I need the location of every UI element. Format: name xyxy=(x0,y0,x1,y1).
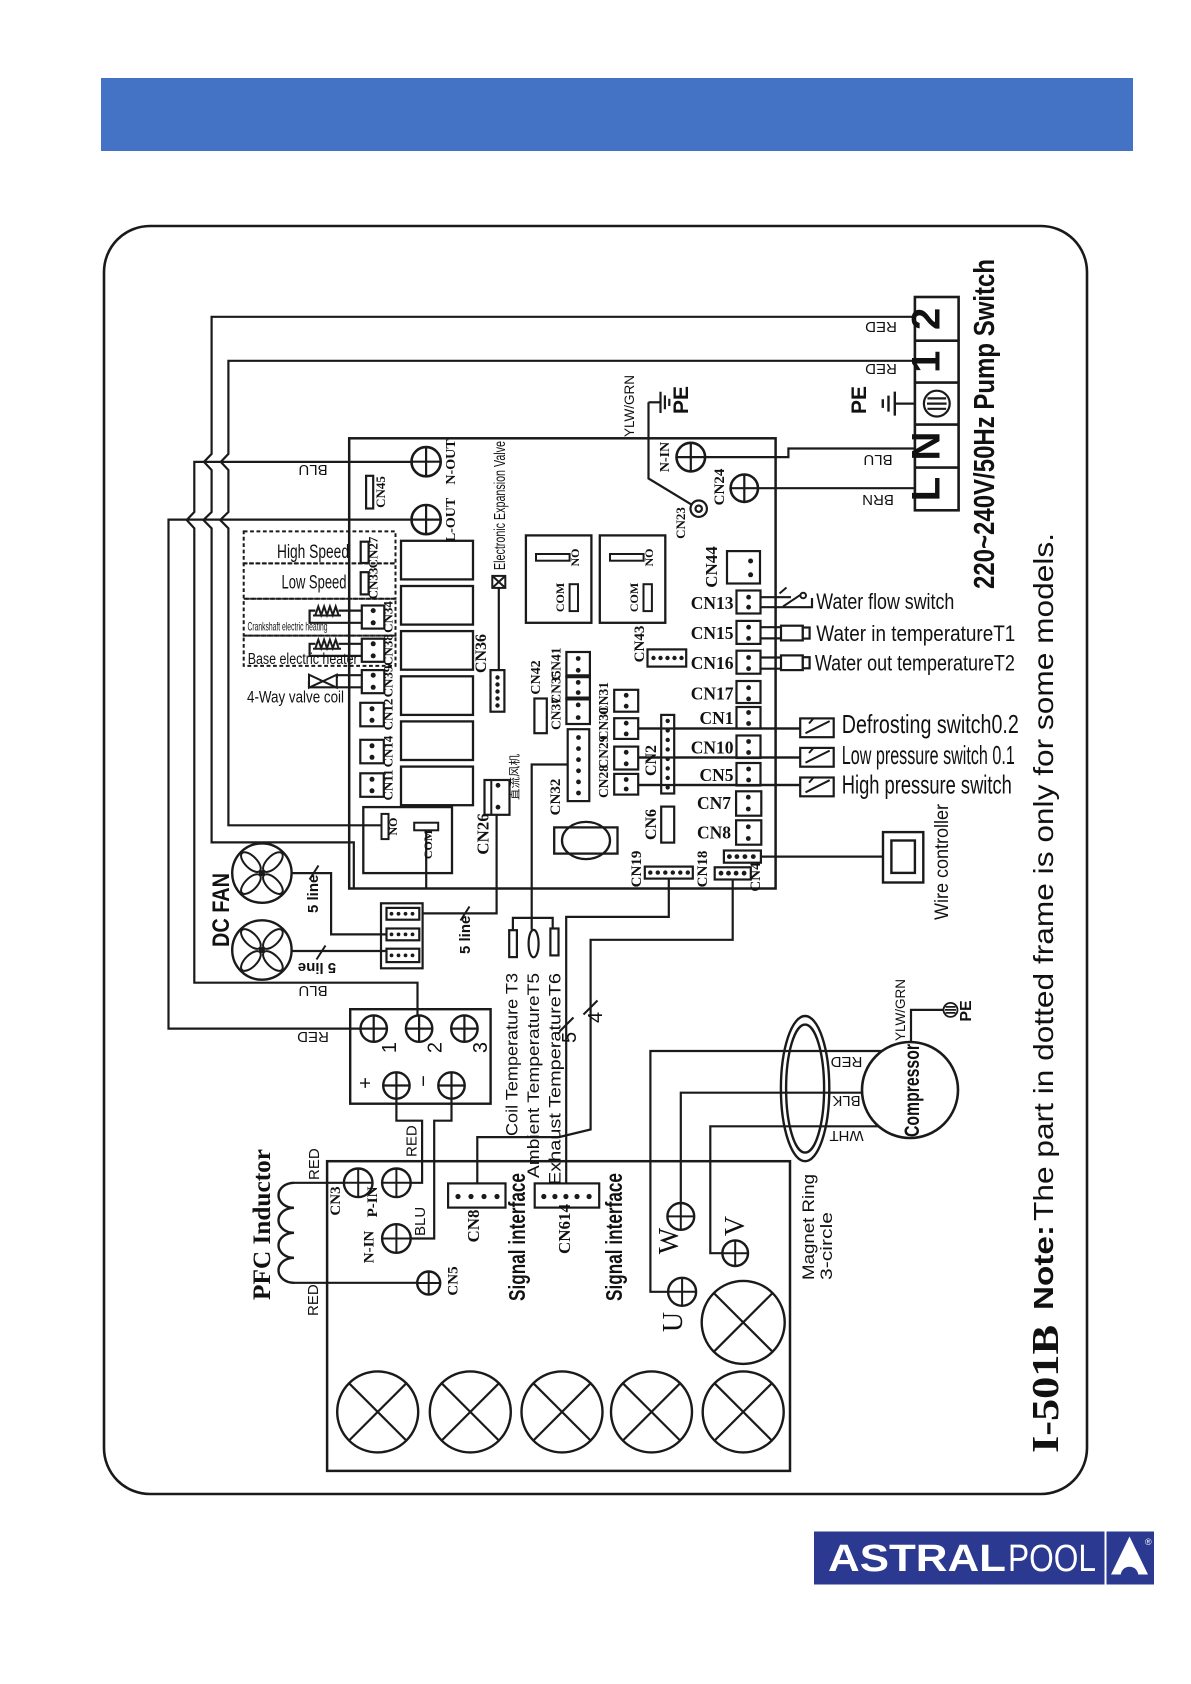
fan connector c xyxy=(387,949,420,962)
connector CN13 xyxy=(737,591,761,614)
wire minus terminal to N-IN xyxy=(411,1099,452,1239)
connector CN34 xyxy=(362,606,385,629)
pins CN35 xyxy=(576,680,581,685)
connector CN30 xyxy=(614,718,638,739)
connector CN16 xyxy=(737,651,761,674)
pins CN43 xyxy=(651,656,655,660)
pins fan connector a xyxy=(390,912,394,916)
wire count slash 5 xyxy=(560,1018,574,1032)
svg-text:BLU: BLU xyxy=(298,461,327,478)
svg-text:CN37: CN37 xyxy=(549,697,564,730)
svg-text:−: − xyxy=(413,1075,435,1087)
svg-text:POOL: POOL xyxy=(1008,1538,1096,1580)
pins CN4 xyxy=(719,871,724,876)
defrosting switch box xyxy=(800,718,834,737)
svg-text:CN11: CN11 xyxy=(381,769,396,800)
wire fan1 to middle connector xyxy=(292,873,387,934)
connector CN19 xyxy=(645,867,693,879)
svg-text:Ambient TemperatureT5: Ambient TemperatureT5 xyxy=(524,973,543,1178)
svg-text:Low pressure switch 0.1: Low pressure switch 0.1 xyxy=(842,740,1015,770)
svg-text:P-IN: P-IN xyxy=(365,1186,381,1217)
svg-text:BLU: BLU xyxy=(298,982,327,999)
dashed frame Low Speed xyxy=(244,563,396,598)
wire CN19 to CN614 signal connector xyxy=(566,879,669,1184)
relay K5 xyxy=(401,721,473,760)
connector CN44 xyxy=(727,551,760,583)
svg-text:CN27: CN27 xyxy=(366,536,381,568)
pins CN2 xyxy=(666,719,670,723)
connector CN7 xyxy=(736,791,761,815)
PE earth symbol at compressor xyxy=(944,1003,958,1017)
svg-text:+: + xyxy=(355,1077,377,1089)
connector CN12 xyxy=(360,703,384,727)
sensor T3 body xyxy=(509,930,517,957)
svg-text:The part in dotted frame is on: The part in dotted frame is only for som… xyxy=(1028,533,1059,1221)
pins CN10 xyxy=(746,739,751,744)
connector CN35 xyxy=(566,676,590,698)
svg-text:CN13: CN13 xyxy=(691,593,734,613)
wire relay COM to board bottom xyxy=(425,830,427,888)
svg-text:Water flow switch: Water flow switch xyxy=(816,589,954,614)
screw W xyxy=(667,1203,694,1230)
fan terminal block 1 2 3 plus minus xyxy=(350,1009,490,1103)
relay K1 xyxy=(401,541,473,580)
wire defrost overlay xyxy=(638,727,800,729)
logo triangle emblem xyxy=(1111,1537,1148,1575)
pins CN14 xyxy=(370,743,375,748)
svg-text:CN614: CN614 xyxy=(555,1203,574,1254)
pins CN16 xyxy=(746,655,751,660)
svg-text:N-IN: N-IN xyxy=(362,1231,378,1264)
4-way valve bowtie xyxy=(309,675,337,688)
magnet ring xyxy=(781,1016,829,1161)
connector CN614 signal xyxy=(535,1183,600,1207)
pins CN32 xyxy=(576,735,581,740)
connector CN28 xyxy=(614,774,638,795)
connector CN41 xyxy=(566,652,590,676)
svg-text:1: 1 xyxy=(379,1042,401,1053)
svg-text:Wire controller: Wire controller xyxy=(932,803,953,920)
screw P-IN xyxy=(382,1169,411,1198)
main PCB board outline xyxy=(349,438,775,888)
svg-text:COM: COM xyxy=(421,830,435,859)
svg-text:CN4: CN4 xyxy=(748,862,764,892)
wire CN26 to fan connector block 5 line xyxy=(423,815,497,914)
svg-text:220~240V/50Hz Pump Switch: 220~240V/50Hz Pump Switch xyxy=(969,259,1001,589)
pins CN41 xyxy=(576,656,581,661)
IGBT circle 3 xyxy=(522,1371,603,1452)
svg-text:CN18: CN18 xyxy=(695,851,711,888)
connector CN26 xyxy=(485,780,510,815)
wire CN24 BRN to pump terminal L xyxy=(758,487,915,489)
svg-text:CN30: CN30 xyxy=(596,707,611,740)
svg-text:CN43: CN43 xyxy=(632,626,648,663)
screw CN5 module xyxy=(417,1272,440,1295)
svg-text:L: L xyxy=(905,477,949,501)
svg-text:Note:: Note: xyxy=(1028,1225,1059,1310)
svg-text:ASTRAL: ASTRAL xyxy=(828,1538,1006,1580)
wire high pressure switch to CN28 xyxy=(638,784,800,786)
connector CN1 xyxy=(737,707,761,729)
high pressure switch diagonal xyxy=(806,778,830,793)
wire temperature sensors bracket T3 T6 xyxy=(513,918,553,930)
svg-text:CN15: CN15 xyxy=(691,623,734,643)
svg-text:N-OUT: N-OUT xyxy=(444,439,459,485)
wire CN4 to CN8 signal connector xyxy=(477,880,732,1184)
svg-text:Exhaust TemperatureT6: Exhaust TemperatureT6 xyxy=(546,973,565,1185)
pins CN17 xyxy=(746,685,751,690)
connector CN14 xyxy=(360,740,384,764)
wire controller box xyxy=(883,832,923,882)
wire high pressure overlay xyxy=(638,784,800,786)
pins CN28 xyxy=(624,777,629,782)
wire N-IN BLU to pump terminal N xyxy=(705,449,915,458)
screw L-OUT xyxy=(412,505,441,534)
relay contact box B middle xyxy=(600,535,666,622)
high pressure switch box xyxy=(800,778,834,797)
svg-text:RED: RED xyxy=(865,360,897,377)
svg-text:U: U xyxy=(658,1312,689,1332)
svg-text:Low Speed: Low Speed xyxy=(282,573,347,594)
IGBT circle 2 xyxy=(430,1371,511,1452)
water flow switch lever xyxy=(780,588,807,607)
svg-text:PE: PE xyxy=(848,386,871,414)
wire electronic expansion valve to CN36 xyxy=(498,588,500,670)
low pressure switch diagonal xyxy=(806,748,830,763)
svg-text:V: V xyxy=(720,1216,751,1236)
svg-text:2: 2 xyxy=(425,1042,447,1053)
IGBT circle 4 xyxy=(611,1371,692,1452)
sensor T2 body xyxy=(781,655,803,670)
svg-text:RED: RED xyxy=(404,1125,421,1157)
connector CN2 xyxy=(661,715,674,794)
connector CN11 xyxy=(360,773,384,797)
CN41 CN35 CN37 dividers xyxy=(566,676,590,698)
connector CN29 xyxy=(614,747,638,770)
pins CN7 xyxy=(746,795,751,800)
svg-text:Water in temperatureT1: Water in temperatureT1 xyxy=(816,621,1015,646)
connector CN36 xyxy=(491,670,505,712)
pins CN31 xyxy=(624,693,629,698)
svg-text:1: 1 xyxy=(905,351,949,373)
crankshaft heater coil zigzag xyxy=(313,607,341,616)
svg-text:BLK: BLK xyxy=(832,1092,860,1109)
svg-text:CN19: CN19 xyxy=(629,851,645,888)
wire PE drop to CN23 xyxy=(649,402,693,505)
pins fan connector b xyxy=(390,933,394,937)
svg-text:DC FAN: DC FAN xyxy=(208,873,235,947)
svg-text:BRN: BRN xyxy=(862,491,894,508)
pins CN1 xyxy=(746,710,751,715)
pins CN13 xyxy=(746,595,751,600)
svg-text:Signal interface: Signal interface xyxy=(601,1173,627,1301)
connector CN8 signal xyxy=(448,1183,505,1207)
connector CN5 xyxy=(737,763,761,786)
wire count slash cn26 xyxy=(461,907,470,921)
svg-text:CN24: CN24 xyxy=(712,468,728,505)
wire T5 sensor to CN32 xyxy=(532,765,568,930)
pins CN8 xyxy=(746,824,751,829)
svg-text:RED: RED xyxy=(305,1284,322,1316)
pins CN11 xyxy=(370,777,375,782)
svg-text:CN7: CN7 xyxy=(697,793,731,813)
pins CN44 xyxy=(748,559,753,564)
svg-text:CN34: CN34 xyxy=(381,601,396,633)
defrost switch diagonal xyxy=(806,718,830,733)
svg-text:CN45: CN45 xyxy=(373,476,388,508)
IGBT circle 5 xyxy=(703,1371,784,1452)
svg-text:N: N xyxy=(905,432,949,461)
wire crankshaft heater to CN34 xyxy=(310,611,374,623)
screw CN24 xyxy=(731,475,758,502)
svg-text:High pressure switch: High pressure switch xyxy=(842,770,1012,800)
svg-text:RED: RED xyxy=(306,1148,323,1180)
wire 4-way valve to CN39 xyxy=(309,675,373,687)
sensor T1 body xyxy=(781,626,803,641)
wire PE cell to earth symbol xyxy=(895,403,924,405)
connector CN18 xyxy=(724,851,761,863)
wire CN13 to water flow switch xyxy=(761,597,813,607)
svg-text:CN33: CN33 xyxy=(366,567,381,599)
relay contact box A middle xyxy=(526,535,592,622)
relay NO COM box lower-left xyxy=(363,807,452,873)
wire base heater to CN38 xyxy=(310,644,374,656)
pins CN34 xyxy=(371,608,376,613)
connector CN37 xyxy=(566,699,590,725)
svg-text:Defrosting switch0.2: Defrosting switch0.2 xyxy=(842,709,1019,739)
sensor T5 body oval xyxy=(529,930,539,957)
wire compressor BLK to W xyxy=(681,1093,863,1203)
pins CN38 xyxy=(371,641,376,646)
PFC inductor coil xyxy=(279,1183,295,1283)
earth symbol at CN23 PE xyxy=(661,392,670,413)
svg-text:CN44: CN44 xyxy=(702,546,721,588)
svg-text:CN10: CN10 xyxy=(691,738,734,758)
svg-text:NO: NO xyxy=(386,818,400,836)
pins CN29 xyxy=(624,750,629,755)
wire count slash fan1 xyxy=(310,866,319,880)
DC fan 1 xyxy=(232,843,291,902)
connector CN43 xyxy=(648,649,687,666)
pins CN36 xyxy=(495,675,499,679)
relay K3 xyxy=(401,631,473,670)
svg-text:5: 5 xyxy=(559,1032,581,1043)
svg-text:CN5: CN5 xyxy=(446,1266,462,1295)
screw plus xyxy=(383,1072,409,1098)
wire low pressure switch to CN29 xyxy=(638,756,800,758)
wire earth stub top PE xyxy=(649,401,660,403)
svg-text:5 line: 5 line xyxy=(305,875,322,913)
wire defrosting switch to CN30 xyxy=(638,727,800,729)
wire CN18 to wire controller xyxy=(761,855,883,857)
wire RED from L-OUT to terminal 1 of fan block xyxy=(169,520,427,1029)
relay K2 xyxy=(401,586,473,625)
svg-text:5 line: 5 line xyxy=(298,959,336,976)
electronic expansion valve symbol xyxy=(492,576,505,588)
screw N-IN xyxy=(677,443,706,472)
svg-text:Crankshaft electric heating: Crankshaft electric heating xyxy=(248,620,328,634)
relay K6 xyxy=(401,767,473,806)
svg-text:I-501B: I-501B xyxy=(1025,1325,1067,1453)
svg-text:5 line: 5 line xyxy=(457,916,474,954)
svg-text:BLU: BLU xyxy=(412,1207,429,1236)
svg-text:Electronic Expansion Valve: Electronic Expansion Valve xyxy=(492,441,509,570)
svg-text:WHT: WHT xyxy=(829,1127,863,1144)
PE screw terminal in block xyxy=(924,391,950,417)
svg-text:Signal interface: Signal interface xyxy=(504,1173,530,1301)
svg-text:CN2: CN2 xyxy=(643,745,660,776)
svg-text:PFC Inductor: PFC Inductor xyxy=(249,1149,276,1300)
svg-text:W: W xyxy=(654,1227,685,1254)
wire CN15 to sensor T1 xyxy=(761,627,782,638)
svg-text:CN16: CN16 xyxy=(691,653,734,673)
wire CN16 to sensor T2 xyxy=(761,658,782,669)
earth symbol at pump block xyxy=(883,392,895,416)
svg-text:COM: COM xyxy=(627,583,641,612)
logo background xyxy=(814,1532,1154,1585)
svg-text:CN42: CN42 xyxy=(529,660,544,694)
CN26 divider xyxy=(490,780,492,815)
connector CN45 xyxy=(366,476,373,509)
fan connector block outer xyxy=(381,903,423,968)
connector CN6 xyxy=(661,807,674,843)
blue header bar xyxy=(101,78,1133,151)
fan connector a xyxy=(387,908,420,920)
connector CN33 xyxy=(361,572,369,594)
svg-text:Water out temperatureT2: Water out temperatureT2 xyxy=(815,651,1015,676)
svg-text:Compressor: Compressor xyxy=(901,1044,924,1137)
logo separator xyxy=(1105,1532,1107,1585)
svg-text:CN5: CN5 xyxy=(699,765,733,785)
screw 1 xyxy=(361,1015,387,1041)
svg-text:CN38: CN38 xyxy=(381,634,396,666)
wire plus terminal to P-IN xyxy=(396,1099,422,1183)
svg-text:2: 2 xyxy=(905,308,949,330)
svg-text:CN3: CN3 xyxy=(328,1186,344,1215)
pins CN19 xyxy=(648,870,652,874)
svg-text:3: 3 xyxy=(470,1042,492,1053)
svg-text:3-circle: 3-circle xyxy=(817,1212,836,1280)
outer rounded frame xyxy=(104,226,1087,1494)
wire fan2 to lower connector xyxy=(292,950,387,952)
svg-text:NO: NO xyxy=(642,549,656,567)
svg-text:CN8: CN8 xyxy=(697,823,731,843)
screw 2 xyxy=(406,1015,432,1041)
wire compressor PE YLW/GRN xyxy=(911,1010,944,1043)
svg-text:直流风机: 直流风机 xyxy=(508,754,522,800)
svg-text:RED: RED xyxy=(297,1028,329,1045)
connector CN38 xyxy=(362,639,385,662)
svg-text:4-Way valve coil: 4-Way valve coil xyxy=(247,689,344,707)
pins CN37 xyxy=(576,703,581,708)
svg-text:YLW/GRN: YLW/GRN xyxy=(893,979,908,1041)
IGBT circle 1 xyxy=(337,1371,418,1452)
wire PFC inductor top lead to CN3 xyxy=(294,1182,344,1184)
base heater coil zigzag xyxy=(313,640,341,649)
pins CN15 xyxy=(746,625,751,630)
svg-text:N-IN: N-IN xyxy=(658,442,673,472)
DC fan 2 xyxy=(232,920,291,979)
wire count slash fan2 xyxy=(317,946,326,960)
svg-text:CN32: CN32 xyxy=(548,779,564,816)
svg-text:CN8: CN8 xyxy=(464,1209,483,1242)
pins CN18 xyxy=(727,854,732,859)
svg-text:RED: RED xyxy=(830,1053,862,1070)
dashed frame High Speed xyxy=(244,531,396,563)
wire RED to pump terminal 2 (outer loop) xyxy=(203,317,915,889)
pins CN30 xyxy=(624,721,629,726)
connector CN8 xyxy=(736,820,761,844)
svg-text:CN29: CN29 xyxy=(596,735,611,768)
svg-text:Coil Temperature T3: Coil Temperature T3 xyxy=(503,973,522,1136)
wire count slash 4 xyxy=(584,1001,598,1015)
svg-text:CN28: CN28 xyxy=(596,765,611,798)
svg-text:4: 4 xyxy=(585,1012,607,1023)
svg-text:BLU: BLU xyxy=(863,451,892,468)
svg-text:High Speed: High Speed xyxy=(277,542,349,563)
svg-text:CN23: CN23 xyxy=(673,507,688,539)
svg-text:CN14: CN14 xyxy=(381,735,396,767)
pins CN614 xyxy=(541,1194,546,1199)
connector CN27 xyxy=(361,542,369,563)
pins CN5 xyxy=(746,767,751,772)
connector CN17 xyxy=(737,681,761,703)
connector CN15 xyxy=(737,621,761,644)
connector CN4 xyxy=(715,867,751,879)
screw U xyxy=(668,1278,696,1306)
pins fan connector c xyxy=(390,954,394,958)
wire low pressure overlay xyxy=(638,756,800,758)
svg-text:®: ® xyxy=(1145,1537,1152,1547)
svg-text:CN26: CN26 xyxy=(474,813,493,855)
svg-text:PE: PE xyxy=(670,386,693,414)
connector CN32 xyxy=(568,729,590,801)
wire BLU from N-OUT to terminal 2 of fan block xyxy=(187,462,426,1017)
svg-text:Magnet Ring: Magnet Ring xyxy=(799,1174,818,1280)
connector CN23 ring xyxy=(691,501,707,517)
screw N-IN module xyxy=(382,1224,411,1253)
svg-text:CN36: CN36 xyxy=(473,634,490,673)
svg-text:L-OUT: L-OUT xyxy=(444,497,459,542)
fan motor oval symbol xyxy=(554,822,617,859)
compressor xyxy=(862,1042,958,1138)
wire RED to pump terminal 1 (second loop) xyxy=(220,361,915,826)
relay K4 xyxy=(401,676,473,715)
screw 3 xyxy=(451,1015,477,1041)
pump switch terminal block xyxy=(915,297,959,510)
screw minus xyxy=(438,1072,464,1098)
fan connector b xyxy=(387,929,420,941)
wire compressor RED to U xyxy=(650,1051,883,1292)
connector CN42 xyxy=(534,699,546,734)
inverter power module box xyxy=(327,1161,790,1471)
connector CN10 xyxy=(737,736,761,759)
wire compressor WHT to V xyxy=(710,1126,884,1253)
svg-text:NO: NO xyxy=(568,549,582,567)
connector CN39 xyxy=(362,670,385,693)
connector CN31 xyxy=(614,690,638,712)
dashed frame Crankshaft electric heating xyxy=(244,599,396,636)
svg-text:CN12: CN12 xyxy=(381,699,396,731)
svg-text:PE: PE xyxy=(958,1000,975,1022)
sensor T6 body xyxy=(550,929,558,956)
screw CN3 xyxy=(344,1169,373,1198)
svg-text:YLW/GRN: YLW/GRN xyxy=(622,375,637,437)
svg-text:CN17: CN17 xyxy=(691,684,734,704)
svg-text:RED: RED xyxy=(865,318,897,335)
pins CN39 xyxy=(371,673,376,678)
IGBT circle upper xyxy=(702,1281,785,1364)
